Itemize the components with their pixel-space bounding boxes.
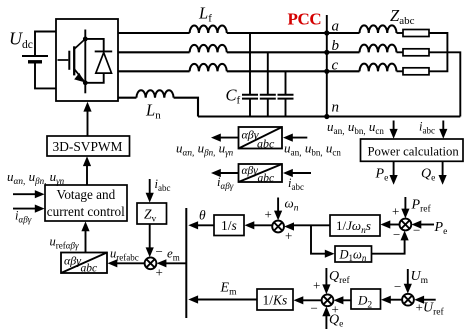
wire: iabc into Zv — [149, 179, 151, 196]
arrowhead: em into junction1 — [157, 259, 167, 267]
wire: control to 3D-SVPWM — [86, 163, 88, 185]
igbt emitter arrowhead — [74, 73, 84, 82]
wire: Qref into junction4 — [325, 268, 327, 289]
arrowhead: into transform 2 — [283, 169, 293, 177]
wire: junction1 to uref block — [115, 262, 145, 264]
wire: Zabc b to n bus — [429, 52, 460, 116]
wire: neutral from Ln down to n bus — [174, 98, 198, 117]
svg-text:+: + — [332, 302, 339, 317]
capacitor Cf plates c — [278, 95, 294, 99]
wire: neutral from inverter to Ln — [118, 97, 136, 99]
wire: phase a Lf to Zabc — [227, 32, 360, 34]
svg-text:αβγ: αβγ — [64, 254, 81, 268]
node dot igbt top — [83, 37, 88, 42]
inductor Ln — [136, 90, 173, 97]
wire: phase b from inverter to Lf — [118, 51, 190, 53]
arrowhead: omega_n into junction2 — [274, 211, 282, 221]
inverter bridge box — [56, 19, 118, 101]
box: 1/s — [214, 215, 244, 236]
wire: output of transform block 2 — [219, 172, 239, 174]
arrowhead: out of transform 1 — [211, 134, 221, 142]
svg-text:1/Ks: 1/Ks — [263, 293, 288, 308]
box: 3D-SVPWM — [47, 136, 130, 156]
capacitor Cf plates b — [260, 95, 276, 99]
svg-text:n: n — [332, 100, 340, 116]
igbt Q1 body bar — [73, 46, 75, 75]
node dot n at PCC — [324, 114, 329, 119]
summing junction 2 — [272, 221, 284, 233]
inductor Lf phase c — [190, 64, 227, 71]
summing junction 3 — [400, 219, 412, 231]
wire: phase b Lf to Zabc — [227, 51, 360, 53]
box label: transform 1 — [242, 128, 276, 151]
svg-text:−: − — [413, 223, 420, 238]
svg-text:+: + — [313, 278, 320, 293]
arrowhead: Pref into junction3 — [401, 209, 409, 219]
igbt Q1 gate bar — [68, 51, 70, 70]
svg-text:+: + — [416, 300, 423, 315]
wire: Qe into junction4 from below — [325, 312, 327, 329]
svg-text:a: a — [332, 18, 340, 34]
wire: Zv to summing junction 1 — [149, 224, 151, 251]
arrowhead: junction1 to uref block — [108, 259, 118, 267]
wire: Pe output — [393, 161, 395, 180]
arrowhead: control input 2 — [35, 205, 45, 213]
diode D1 cathode bar — [95, 50, 113, 52]
wire: Pe into junction3 — [419, 224, 434, 226]
arrowhead: Qe into junction4 — [322, 306, 330, 316]
svg-text:−: − — [156, 244, 163, 259]
wire: iabc to power calculation — [442, 121, 444, 135]
wire: uan ubn ucn to power calculation — [393, 121, 395, 135]
capacitor Cf tap c — [285, 71, 287, 116]
box: transform block uabc to ualphabeta — [239, 127, 283, 149]
wire: 1/Jws output to junction2 with branch — [292, 225, 331, 253]
svg-text:−: − — [393, 227, 400, 242]
svg-text:abc: abc — [257, 137, 275, 151]
diode D1 triangle — [96, 53, 112, 74]
igbt Q1 emitter lead — [74, 69, 85, 83]
node dot b at PCC — [324, 50, 329, 55]
box label: transform uref — [64, 254, 97, 275]
wire: D1wn output to junction3 bottom — [372, 238, 405, 254]
wire: em line from theta-Em bus to junction1 — [164, 262, 186, 264]
arrowhead: junction3 into 1/Jwns — [381, 220, 391, 228]
svg-text:−: − — [311, 301, 318, 316]
arrowhead: Qe out — [439, 175, 447, 185]
wire: control input 1 — [13, 193, 37, 195]
wire: theta-Em vertical bus — [185, 208, 187, 318]
node dot a at PCC — [324, 30, 329, 35]
wire: DC bus bottom from source to inverter — [35, 64, 56, 89]
wire: 3D-SVPWM to inverter — [87, 109, 89, 136]
arrowhead: control input 1 — [35, 190, 45, 198]
wire: input to transform block 1 — [291, 137, 307, 139]
wire: phase a from inverter to Lf — [118, 32, 190, 34]
arrowhead: 1/Jwns out into junction2 — [284, 222, 294, 230]
svg-text:PCC: PCC — [288, 9, 322, 28]
wire: phase c from inverter to Lf — [118, 70, 190, 72]
igbt Q1 collector lead — [74, 39, 85, 49]
arrowhead: Zv into junction1 — [146, 247, 154, 257]
svg-text:3D-SVPWM: 3D-SVPWM — [53, 139, 123, 154]
wire: Um into junction5 — [407, 269, 409, 288]
arrowhead: Qref into junction4 — [322, 284, 330, 294]
box: power calculation — [361, 139, 464, 161]
wire: n bus — [198, 115, 460, 117]
svg-text:current control: current control — [47, 204, 125, 219]
box: transform block uref — [61, 253, 107, 274]
wire: Em from 1/Ks to bus — [196, 299, 257, 301]
box: voltage and current control — [45, 185, 127, 221]
arrowhead: svpwm to inverter — [83, 102, 91, 112]
summing junction 4 — [322, 294, 334, 306]
igbt Q1 center rail — [84, 30, 86, 94]
wire: junction4 to 1/Ks — [301, 299, 322, 301]
arrowhead: control to svpwm — [83, 156, 91, 166]
svg-text:+: + — [265, 207, 272, 222]
capacitor Cf tap a — [249, 33, 251, 117]
resistor Zabc phase c — [397, 68, 430, 75]
arrowhead: Pe out — [390, 175, 398, 185]
igbt Q1 gate lead — [58, 59, 69, 61]
node dot igbt bottom — [83, 80, 88, 85]
arrowhead: theta into bus — [188, 221, 198, 229]
box: D2 — [351, 289, 381, 309]
box label: Votage and current control — [47, 187, 125, 219]
wire: junction3 to 1/Jwns — [388, 224, 399, 226]
svg-text:+: + — [285, 228, 292, 243]
inductor Zabc phase a — [360, 25, 397, 33]
wire: uref block up to control box — [85, 229, 87, 253]
capacitor Cf plates a — [242, 95, 258, 99]
resistor Zabc phase a — [397, 30, 430, 37]
arrowhead: junction4 into 1/Ks — [294, 296, 304, 304]
arrowhead: Uref into junction5 — [414, 296, 424, 304]
wire: Pref into junction3 — [404, 197, 406, 213]
dc source Udc plates — [22, 56, 48, 62]
svg-text:1/s: 1/s — [221, 218, 237, 233]
wire: DC bus top from source to inverter — [35, 32, 56, 57]
svg-text:+: + — [156, 265, 163, 280]
wire: theta from 1/s to bus — [196, 224, 214, 226]
arrowhead: branch into D1wn — [325, 250, 335, 258]
arrowhead: Pe into junction3 — [412, 220, 422, 228]
svg-text:b: b — [332, 38, 340, 54]
inductor Zabc phase c — [360, 64, 397, 72]
arrowhead: uref block to control — [81, 221, 89, 231]
wire: output of transform block 1 — [219, 137, 239, 139]
arrowhead: Em into bus — [188, 295, 198, 303]
svg-text:c: c — [332, 57, 339, 73]
summing junction 5 — [402, 294, 414, 306]
arrowhead: Um into junction5 — [404, 284, 412, 294]
diode D1 leads — [85, 39, 103, 83]
wire: Uref into junction5 — [422, 299, 436, 301]
arrowhead: into transform 1 — [283, 134, 293, 142]
svg-text:Votage and: Votage and — [57, 187, 116, 202]
inductor Zabc phase b — [360, 45, 397, 53]
arrowhead: iabc to power calc — [439, 129, 447, 139]
wire: junction2 to 1/s — [252, 224, 272, 226]
box: 1/Ks — [257, 289, 293, 310]
svg-text:αβγ: αβγ — [242, 165, 259, 177]
wire: Qe output — [442, 161, 444, 180]
arrowhead: out of transform 2 — [211, 169, 221, 177]
arrowhead: junction2 into 1/s — [245, 221, 255, 229]
wire: input to transform block 2 — [291, 172, 311, 174]
node dot c at PCC — [324, 69, 329, 74]
svg-text:−: − — [394, 279, 401, 294]
svg-text:+: + — [392, 204, 399, 219]
svg-text:θ: θ — [199, 208, 206, 223]
box label: transform 2 — [242, 165, 275, 184]
wire: D2 to junction4 — [341, 299, 351, 301]
arrowhead: uan to power calc — [390, 129, 398, 139]
arrowhead: D2 into junction4 — [334, 296, 344, 304]
inductor Lf phase b — [190, 45, 227, 52]
svg-text:Power calculation: Power calculation — [368, 145, 460, 159]
capacitor Cf tap b — [267, 52, 269, 116]
inductor Lf phase a — [190, 26, 227, 33]
box: 1/Jwns — [330, 215, 380, 236]
wire: Zabc a-c tie — [429, 33, 447, 71]
box: D1wn — [335, 246, 372, 262]
wire: omega_n into junction2 — [277, 198, 279, 216]
svg-text:abc: abc — [81, 263, 98, 275]
wire: PCC vertical — [326, 15, 328, 117]
wire: phase c Lf to Zabc — [227, 70, 360, 72]
svg-text:abc: abc — [258, 172, 275, 184]
arrowhead: junction5 into D2 — [381, 296, 391, 304]
arrowhead: iabc into Zv — [146, 193, 154, 203]
box: transform block iabc to ialphabeta — [239, 164, 283, 182]
summing junction 1 — [145, 257, 157, 269]
box: Zv — [137, 203, 167, 224]
resistor Zabc phase b — [397, 49, 430, 56]
wire: junction5 to D2 — [389, 299, 403, 301]
wire: control input 2 — [13, 208, 37, 210]
arrowhead: D1wn into junction3 — [401, 231, 409, 241]
